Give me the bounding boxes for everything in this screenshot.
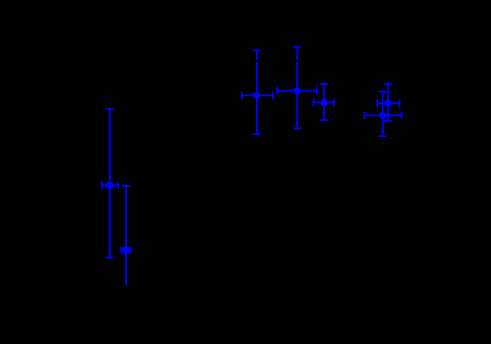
point P4: [277, 47, 317, 129]
point P5: [314, 84, 335, 120]
point P1: [102, 109, 118, 258]
point P7: [365, 92, 402, 137]
point P2: [121, 186, 129, 286]
point P3: [242, 50, 273, 134]
point P6: [377, 84, 399, 121]
